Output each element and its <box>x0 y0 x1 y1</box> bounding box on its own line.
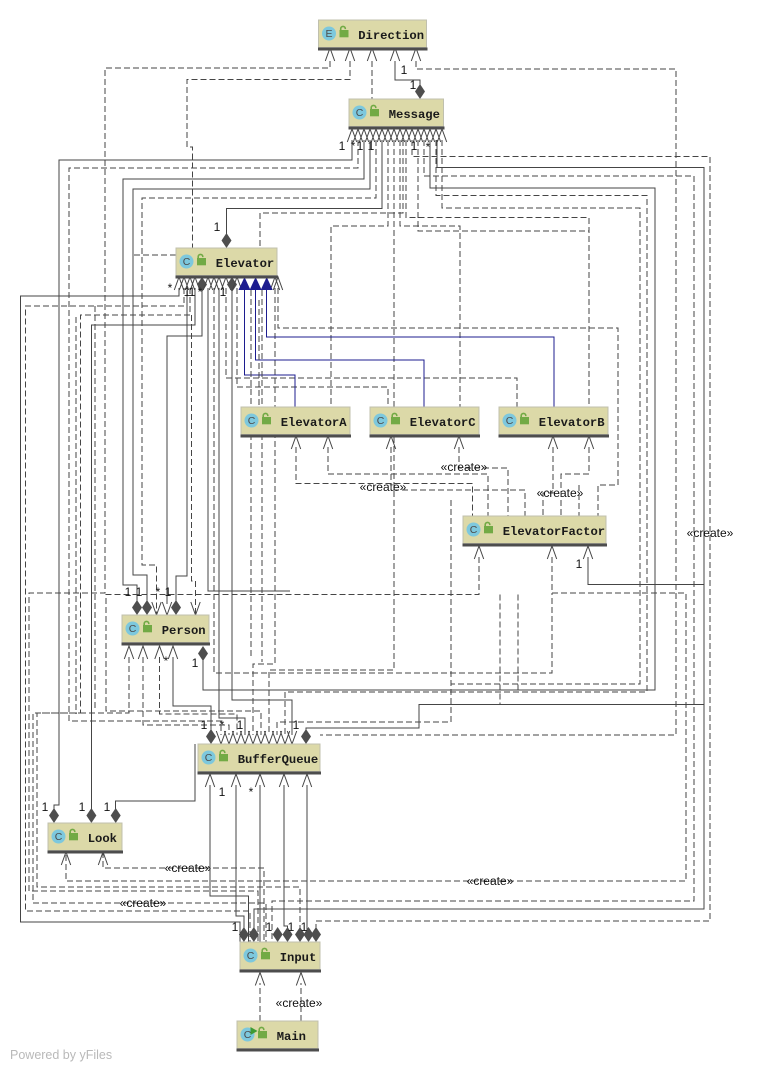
diamond on Look top x54 <box>49 808 59 823</box>
arrowhead into Message x412 <box>407 129 416 142</box>
svg-text:«create»: «create» <box>537 486 584 500</box>
class ElevatorB <box>499 407 610 438</box>
wire Person..Elevator dependency <box>192 315 196 615</box>
svg-text:1: 1 <box>219 785 226 799</box>
svg-text:ElevatorC: ElevatorC <box>410 416 476 430</box>
class ElevatorC <box>370 407 481 438</box>
svg-text:C: C <box>205 752 213 764</box>
svg-text:«create»: «create» <box>120 896 167 910</box>
svg-text:1: 1 <box>189 285 196 299</box>
wire dependency trunk stub x262 <box>261 290 263 662</box>
svg-text:1: 1 <box>368 139 375 153</box>
arrowhead into BufferQueue top x269 <box>264 731 273 744</box>
svg-text:C: C <box>183 256 191 268</box>
wire ElevatorB..Elevator dependency <box>226 288 517 407</box>
wire create ElevatorFactor-ElevatorA 2 <box>328 447 488 516</box>
arrowhead into ElevatorFactor x552 <box>547 546 556 559</box>
arrowhead into BufferQueue bottom x307 <box>302 774 311 787</box>
wire Message-Direction association <box>395 61 420 90</box>
arrowhead into Direction x330 <box>325 48 334 61</box>
class ElevatorFactor <box>463 516 608 547</box>
wire Input..Elevator dependency 2 <box>37 288 300 933</box>
svg-text:Person: Person <box>162 624 206 638</box>
wire Input-BufferQueue association x236 <box>236 785 244 933</box>
arrowhead into Person bottom x159 <box>155 646 164 659</box>
diamond on Person top x147 <box>142 600 152 615</box>
arrowhead into Person top x195 <box>191 602 200 615</box>
svg-text:C: C <box>129 623 137 635</box>
svg-text:1: 1 <box>201 718 208 732</box>
arrowhead into Message x364 <box>359 129 368 142</box>
wire Look-Message association <box>54 140 352 812</box>
svg-text:1: 1 <box>293 718 300 732</box>
wire Input-BufferQueue association x284 <box>284 785 288 933</box>
svg-text:C: C <box>248 415 256 427</box>
svg-text:1: 1 <box>401 63 408 77</box>
arrowhead into BufferQueue top x261 <box>256 731 265 744</box>
arrowhead into BufferQueue bottom x284 <box>279 774 288 787</box>
arrowhead into Input bottom x260 <box>255 973 264 986</box>
arrowhead into Elevator x278 <box>273 277 282 290</box>
diamond under Elevator x232 <box>227 277 237 292</box>
wire create Input-Main 1 <box>259 983 261 1021</box>
wire Elevator..Message dependency (top tick x260) <box>260 140 403 248</box>
svg-text:BufferQueue: BufferQueue <box>238 753 318 767</box>
diamond on Look top x115 <box>111 808 121 823</box>
arrowhead into Message x358 <box>353 129 362 142</box>
diamond on Look top x91 <box>86 808 96 823</box>
wire Input-BufferQueue association x260 <box>259 785 261 942</box>
wire BufferQueue-Person association <box>173 657 211 735</box>
svg-text:ElevatorFactor: ElevatorFactor <box>503 525 605 539</box>
class Person <box>122 615 211 646</box>
arrowhead into Elevator x237 <box>232 277 241 290</box>
svg-text:*: * <box>351 139 356 153</box>
svg-text:C: C <box>244 1029 252 1041</box>
arrowhead into ElevatorA x296 <box>291 436 300 449</box>
wire create ElevatorFactor-ElevatorA 1 <box>296 447 473 516</box>
arrowhead into Message x388 <box>383 129 392 142</box>
wire ElevatorB..Message dependency 2 <box>418 140 589 231</box>
svg-text:C: C <box>55 831 63 843</box>
wire BufferQueue..ElevatorFactor dependency <box>106 557 479 735</box>
svg-text:*: * <box>220 718 225 732</box>
arrowhead into Elevator x190 <box>185 277 194 290</box>
wire ElevatorA..Message dependency <box>331 140 388 407</box>
svg-text:*: * <box>198 285 203 299</box>
svg-text:E: E <box>325 28 332 40</box>
svg-text:1: 1 <box>42 800 49 814</box>
svg-text:1: 1 <box>301 920 308 934</box>
svg-text:C: C <box>377 415 385 427</box>
arrowhead into Person bottom x129 <box>124 646 133 659</box>
wire Elevator-Message association <box>227 140 383 236</box>
class Elevator <box>176 248 279 279</box>
diamond on Person bottom x203 <box>198 646 208 661</box>
arrowhead into ElevatorFactor x479 <box>474 546 483 559</box>
svg-text:1: 1 <box>266 920 273 934</box>
diamond on Input top x316 <box>311 927 321 942</box>
arrowhead into Elevator x275 <box>270 277 279 290</box>
svg-text:Look: Look <box>88 832 117 846</box>
svg-text:«create»: «create» <box>360 480 407 494</box>
arrowhead into BufferQueue top x292 <box>287 731 296 744</box>
class Main <box>237 1021 320 1052</box>
arrowhead into Elevator x195 <box>190 277 199 290</box>
wire ElevatorFactor..Elevator dependency center <box>214 288 552 673</box>
wire association trunk x208 <box>208 288 290 591</box>
wire create ElevatorFactor-ElevatorC 2 <box>459 447 508 516</box>
svg-text:ElevatorB: ElevatorB <box>539 416 606 430</box>
svg-text:1: 1 <box>339 139 346 153</box>
diamond on Elevator top x226 <box>222 233 232 248</box>
svg-text:Main: Main <box>277 1030 306 1044</box>
arrowhead into Elevator x208 <box>203 277 212 290</box>
svg-text:Elevator: Elevator <box>216 257 275 271</box>
wire create ElevatorFactor-ElevatorB 1 <box>543 447 553 516</box>
diamond on Person top x176 <box>171 600 181 615</box>
diamond on Input top x300 <box>295 927 305 942</box>
diamond on Input top x287.5 <box>283 927 293 942</box>
wire Message..Direction dependency <box>371 61 373 99</box>
wire ElevatorC..Message dependency <box>400 140 460 407</box>
svg-text:«create»: «create» <box>687 526 734 540</box>
svg-text:Direction: Direction <box>358 29 424 43</box>
wire Person-Message association 2 <box>133 140 370 606</box>
wire dependency riser stub x518 <box>517 595 519 693</box>
arrowhead into ElevatorC x459 <box>454 436 463 449</box>
arrowhead into Direction x416 <box>411 48 420 61</box>
wire create ElevatorFactor-ElevatorB 2 <box>561 447 589 516</box>
svg-text:*: * <box>168 281 173 295</box>
wire dependency trunk stub x251 <box>250 290 252 658</box>
wire Elevator left-side dependency stub <box>134 254 176 256</box>
svg-text:1: 1 <box>288 920 295 934</box>
svg-text:«create»: «create» <box>467 874 514 888</box>
arrowhead into Person top x167 <box>162 602 171 615</box>
svg-text:C: C <box>506 415 514 427</box>
svg-text:«create»: «create» <box>276 996 323 1010</box>
arrowhead into Message x376 <box>371 129 380 142</box>
svg-text:*: * <box>249 785 254 799</box>
arrowhead into Message x442 <box>437 129 446 142</box>
arrowhead into BufferQueue top x229 <box>224 731 233 744</box>
arrowhead into Message x424 <box>419 129 428 142</box>
wire Look-BufferQueue association <box>116 744 195 812</box>
arrowhead into Elevator x179 <box>174 277 183 290</box>
svg-text:1: 1 <box>576 557 583 571</box>
wire BufferQueue-Elevator association <box>219 288 245 735</box>
arrowhead into Elevator x226 <box>221 277 230 290</box>
svg-text:*: * <box>164 654 169 668</box>
diamond under Elevator x202 <box>197 277 207 292</box>
arrowhead into Message x430 <box>425 129 434 142</box>
wire ElevatorA..dependency stub x259 <box>258 300 260 407</box>
arrowhead into Person top x156 <box>152 602 161 615</box>
class Message <box>349 99 445 130</box>
arrowhead into BufferQueue top x245 <box>240 731 249 744</box>
arrowhead into BufferQueue top x237 <box>232 731 241 744</box>
svg-text:Message: Message <box>389 108 440 122</box>
svg-text:1: 1 <box>410 78 417 92</box>
wire Input..Message dependency via far right trunk <box>316 140 710 933</box>
class ElevatorA <box>241 407 352 438</box>
svg-text:1: 1 <box>220 285 227 299</box>
svg-text:1: 1 <box>125 585 132 599</box>
wire BufferQueue..Message dependency center <box>269 140 394 735</box>
inheritance triangle x266 <box>261 277 273 290</box>
arrowhead into Elevator x184 <box>179 277 188 290</box>
wire BufferQueue..Direction dependency via right trunk <box>320 61 676 735</box>
arrowhead into BufferQueue top x277 <box>272 731 281 744</box>
diamond on Input top x254 <box>249 927 259 942</box>
wire Person-Message association 1 <box>123 140 364 606</box>
wire ElevatorB..Message dependency 1 <box>406 140 589 407</box>
arrowhead into Look bottom x66 <box>61 852 70 865</box>
arrowhead into ElevatorFactor x588 <box>583 546 592 559</box>
arrowhead into Message x382 <box>377 129 386 142</box>
wire Input-BufferQueue association x307 <box>306 785 308 933</box>
wire Person-Elevator association 2 <box>176 291 187 606</box>
svg-text:*: * <box>156 585 161 599</box>
class Look <box>48 823 124 854</box>
svg-text:C: C <box>470 524 478 536</box>
arrowhead into Direction x395 <box>390 48 399 61</box>
arrowhead into Message x418 <box>413 129 422 142</box>
wire Input-ElevatorFactor association <box>254 557 704 933</box>
wire dependency riser stub x500 <box>499 595 501 705</box>
arrowhead into Elevator x219 <box>214 277 223 290</box>
diamond on Input top x277.6 <box>273 927 283 942</box>
wire Input-Elevator association via far left trunk <box>21 288 241 942</box>
class Input <box>240 942 322 973</box>
arrowhead into Message x394 <box>389 129 398 142</box>
diamond on Input top x243.9 <box>239 927 249 942</box>
svg-text:Powered by yFiles: Powered by yFiles <box>10 1048 112 1062</box>
class BufferQueue <box>198 744 322 775</box>
wire Input..Message dependency 2 <box>272 140 694 942</box>
arrowhead into ElevatorA x328 <box>323 436 332 449</box>
diamond on BufferQueue top x211 <box>206 729 216 744</box>
arrowhead into Direction x350 <box>345 48 354 61</box>
arrowhead into BufferQueue bottom x236 <box>231 774 240 787</box>
wire BufferQueue-Message association right trunk <box>306 140 704 735</box>
arrowhead into Message x370 <box>365 129 374 142</box>
arrowhead into Message x352 <box>347 129 356 142</box>
svg-text:1: 1 <box>214 220 221 234</box>
wire dependency riser stub x451 <box>450 500 452 684</box>
wire BufferQueue..Message dependency far left <box>69 140 358 735</box>
wire dependency trunk stub x95 <box>94 306 96 711</box>
diamond on Message top x420 <box>415 84 425 99</box>
svg-text:C: C <box>247 950 255 962</box>
arrowhead into Look bottom x103 <box>98 852 107 865</box>
wire Elevator..Direction dependency <box>187 61 350 248</box>
wire create ElevatorFactor-ElevatorC 1 <box>391 447 525 516</box>
wire Person..Message dependency <box>142 140 376 615</box>
diamond on BufferQueue top x306 <box>301 729 311 744</box>
arrowhead into BufferQueue top x253 <box>248 731 257 744</box>
wire Input..Elevator dependency 1 <box>26 288 251 942</box>
svg-text:Input: Input <box>280 951 317 965</box>
arrowhead into Person bottom x173 <box>168 646 177 659</box>
svg-text:1: 1 <box>237 718 244 732</box>
arrowhead into Message x406 <box>401 129 410 142</box>
arrowhead into ElevatorB x589 <box>584 436 593 449</box>
inheritance triangle x244 <box>239 277 251 290</box>
wire create Person-Input via left trunk <box>33 657 266 942</box>
wire BufferQueue..Elevator dependency <box>253 288 275 735</box>
class Direction <box>318 20 428 51</box>
wire BufferQueue..Message dependency right 1 <box>285 140 647 735</box>
svg-text:1: 1 <box>79 800 86 814</box>
diamond on Input top x308.5 <box>304 927 314 942</box>
wire ElevatorB inheritance <box>267 290 554 407</box>
wire BufferQueue..Person dependency 2 <box>160 657 238 735</box>
svg-text:C: C <box>356 107 364 119</box>
diamond on Person top x137 <box>132 600 142 615</box>
wire create Look-ElevatorFactor <box>66 557 686 881</box>
arrowhead into BufferQueue bottom x210 <box>205 774 214 787</box>
svg-text:1: 1 <box>232 920 239 934</box>
svg-text:1: 1 <box>192 656 199 670</box>
wire BufferQueue..Message dependency right 2 <box>277 140 640 735</box>
svg-text:«create»: «create» <box>165 861 212 875</box>
wire create Look-Input <box>103 852 264 942</box>
arrowhead into BufferQueue top x285 <box>280 731 289 744</box>
wire Person-Message association right <box>203 140 655 690</box>
svg-text:ElevatorA: ElevatorA <box>281 416 348 430</box>
wire create Input-Main 2 <box>300 983 302 1021</box>
arrowhead into Elevator x214 <box>209 277 218 290</box>
wire ElevatorC..Elevator dependency <box>237 288 388 407</box>
arrowhead into Message x400 <box>395 129 404 142</box>
wire ElevatorFactor..Elevator dependency right <box>278 288 618 516</box>
wire Input-BufferQueue association x210 <box>210 785 249 942</box>
wire Person-Elevator association (arrow into Person) <box>167 291 202 604</box>
arrowhead into Input bottom x301 <box>296 973 305 986</box>
wire Look-Elevator association <box>91 288 195 812</box>
arrowhead into Person bottom x143 <box>138 646 147 659</box>
arrowhead into Message x436 <box>431 129 440 142</box>
svg-text:«create»: «create» <box>441 460 488 474</box>
wire ElevatorA inheritance <box>245 290 296 407</box>
svg-text:1: 1 <box>136 585 143 599</box>
wire BufferQueue..Person dependency 1 <box>143 657 229 735</box>
wire ElevatorFactor top stub x579 <box>578 485 580 516</box>
wire ElevatorC inheritance <box>256 290 424 407</box>
arrowhead into BufferQueue bottom x260 <box>255 774 264 787</box>
arrowhead into Direction x372 <box>367 48 376 61</box>
arrowhead into ElevatorC x391 <box>386 436 395 449</box>
wire Input..Direction dependency via left trunk <box>29 61 330 942</box>
wire BufferQueue-Elevator association 2 <box>232 291 292 735</box>
svg-text:1: 1 <box>104 800 111 814</box>
svg-text:1: 1 <box>165 585 172 599</box>
arrowhead into BufferQueue top x221 <box>216 731 225 744</box>
wire dependency trunk stub x76 <box>75 317 77 714</box>
arrowhead into ElevatorB x553 <box>548 436 557 449</box>
inheritance triangle x255 <box>250 277 262 290</box>
